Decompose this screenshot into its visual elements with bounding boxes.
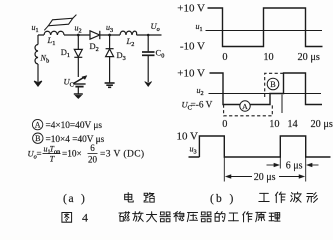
svg-text:10: 10: [269, 119, 279, 130]
label -10 V (u1): [180, 40, 205, 52]
svg-text:C: C: [70, 81, 74, 88]
figure caption: Fig4 magnetic amplifier regulator principle: [62, 211, 280, 225]
svg-text:2: 2: [201, 90, 204, 97]
inductor L1: [44, 31, 64, 35]
dimension 6us with arrows: [267, 161, 319, 172]
label D3: [117, 50, 126, 62]
svg-text:=: =: [37, 149, 42, 159]
annotation: output voltage formula Uo: [28, 143, 145, 165]
svg-text:0: 0: [222, 119, 227, 130]
label Uc: [64, 76, 74, 88]
label D1: [61, 47, 70, 59]
svg-text:1: 1: [36, 27, 39, 34]
saturable core symbol (parallelogram with diagonal ticks): [44, 15, 76, 31]
annotation: circled A volt-second formula: [32, 119, 102, 131]
svg-text:a: a: [69, 193, 74, 205]
label L2: [126, 36, 135, 48]
svg-text:2: 2: [131, 41, 134, 48]
svg-text:on: on: [54, 148, 60, 155]
svg-text:0: 0: [222, 52, 227, 63]
caption (a) dianlu: [63, 193, 155, 205]
label u1 (axis): [196, 22, 203, 33]
svg-text:b: b: [46, 58, 49, 65]
svg-text:B: B: [270, 80, 276, 89]
annotation: circled B volt-second formula: [33, 133, 105, 145]
label u2 (axis): [197, 86, 204, 97]
ground arrow (input return): [34, 64, 42, 86]
dimension 20us with arrows: [225, 172, 304, 183]
circled A marker: [240, 101, 250, 111]
waveform u1: square wave trace: [208, 8, 323, 47]
label 10 V (u3): [177, 131, 199, 143]
waveform u1: zero axis: [206, 30, 323, 32]
svg-text:6: 6: [90, 143, 95, 153]
source Uc (adjustable battery): [73, 76, 87, 87]
label D2: [90, 41, 99, 53]
label +10 V (u1): [177, 3, 205, 15]
waveform u2: zero axis: [209, 93, 322, 95]
capacitor Co: [142, 35, 155, 83]
circled B marker: [267, 78, 279, 90]
svg-text:2: 2: [79, 28, 82, 35]
svg-text:1: 1: [67, 52, 70, 59]
svg-text:1: 1: [200, 26, 203, 33]
svg-text:(: (: [63, 193, 67, 205]
svg-text:+10 V: +10 V: [177, 68, 205, 80]
svg-text:A: A: [35, 121, 41, 130]
label Uo (output): [151, 21, 160, 33]
svg-text:20 μs: 20 μs: [254, 172, 276, 183]
svg-text:3: 3: [123, 55, 126, 62]
label Nb: [40, 54, 50, 65]
node u2 (junction dot + label): [75, 24, 82, 37]
svg-text:o: o: [157, 26, 160, 33]
svg-text:(: (: [210, 193, 214, 205]
svg-text:=3 V (DC): =3 V (DC): [100, 149, 145, 160]
svg-text:A: A: [242, 102, 248, 111]
svg-text:b: b: [216, 193, 222, 205]
label u3: [190, 145, 197, 156]
dashed box area B: [265, 73, 284, 97]
svg-text:): ): [230, 193, 234, 205]
svg-text:20 μs: 20 μs: [311, 119, 333, 130]
svg-text:14: 14: [287, 119, 297, 130]
wire: main top rail u1-u2-u3-Uo: [38, 34, 162, 36]
waveform u3: pulse trace: [189, 136, 331, 157]
label Uc=-6 V: [182, 99, 213, 111]
node: output junction: [147, 34, 150, 37]
ground (below D3): [105, 83, 115, 87]
svg-text:2: 2: [96, 46, 99, 53]
diode D3 (vertical freewheel, cathode top): [106, 35, 114, 83]
svg-text:=4×10=40V μs: =4×10=40V μs: [46, 121, 103, 131]
caption (b) gongzuoboxing: [210, 192, 318, 205]
svg-text:3: 3: [110, 27, 113, 34]
svg-text:10 V: 10 V: [177, 131, 199, 143]
svg-text:=10×: =10×: [62, 150, 82, 160]
diode D2 (horizontal, pointing right): [90, 31, 100, 39]
tick mark t=14 below axis: [281, 95, 283, 114]
axis numbers 0 10 14 20us (u2): [222, 119, 333, 130]
dimension extension lines: [224, 157, 305, 182]
svg-text:+10 V: +10 V: [177, 3, 205, 15]
svg-text:3: 3: [194, 149, 197, 156]
node u1 label: [32, 23, 39, 34]
dashed box area A: [224, 105, 273, 116]
wire: left input branch down to winding: [37, 35, 39, 45]
svg-text:0: 0: [161, 53, 164, 60]
svg-text:=-6 V: =-6 V: [191, 100, 213, 110]
node u3 (junction dot + label): [106, 23, 113, 37]
diode D1 (vertical, anode top): [74, 35, 82, 77]
svg-text:=10×4 =40V μs: =10×4 =40V μs: [46, 135, 105, 145]
label L1: [47, 35, 56, 47]
svg-text:6 μs: 6 μs: [286, 161, 303, 172]
axis numbers 0 10 20us (u1): [222, 52, 319, 63]
svg-text:B: B: [35, 134, 40, 143]
label Co: [156, 48, 165, 60]
svg-text:): ): [81, 193, 85, 205]
label +10 V (u2): [177, 68, 205, 80]
svg-text:1: 1: [52, 40, 55, 47]
svg-text:10: 10: [263, 52, 273, 63]
ground arrow (below Co): [145, 82, 152, 87]
inductor L2: [120, 31, 137, 35]
winding Nb (left coil): [35, 45, 38, 65]
ground (below Uc): [74, 88, 83, 99]
svg-text:-10 V: -10 V: [180, 40, 205, 52]
svg-text:20: 20: [88, 154, 98, 164]
waveform u2: trace: [210, 73, 323, 105]
svg-text:4: 4: [82, 211, 88, 225]
svg-text:20 μs: 20 μs: [298, 52, 320, 63]
